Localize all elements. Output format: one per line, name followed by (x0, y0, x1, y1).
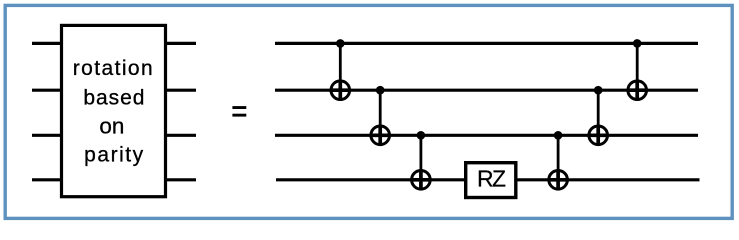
gate RZ on q3 (466, 163, 516, 198)
wire q3 left stub (32, 178, 63, 181)
wire q1 left stub (32, 89, 63, 92)
svg-text:parity: parity (84, 143, 143, 166)
wire q2 (275, 134, 698, 137)
svg-text:rotation: rotation (73, 57, 153, 80)
wire q0 (275, 42, 698, 45)
wire q2 right stub (164, 134, 196, 137)
wire q0 right stub (164, 42, 196, 45)
CNOT CX2 control q1 target q2 (370, 86, 391, 146)
CNOT CX4 control q2 target q3 (548, 131, 569, 190)
wire q0 left stub (32, 42, 63, 45)
svg-text:RZ: RZ (477, 165, 506, 191)
svg-text:on: on (99, 113, 124, 138)
CNOT CX3 control q2 target q3 (410, 131, 431, 190)
CNOT CX6 control q0 target q1 (627, 39, 648, 101)
wire q1 right stub (164, 89, 196, 92)
wire q3 right stub (164, 178, 196, 181)
equals sign (232, 106, 246, 117)
CNOT CX1 control q0 target q1 (330, 39, 351, 101)
wire q2 left stub (32, 134, 63, 137)
wire q3 (276, 178, 700, 181)
gate box U1 rotation based on parity (62, 25, 166, 196)
CNOT CX5 control q1 target q2 (588, 86, 609, 146)
svg-text:based: based (83, 87, 144, 110)
wire q1 (275, 89, 698, 92)
